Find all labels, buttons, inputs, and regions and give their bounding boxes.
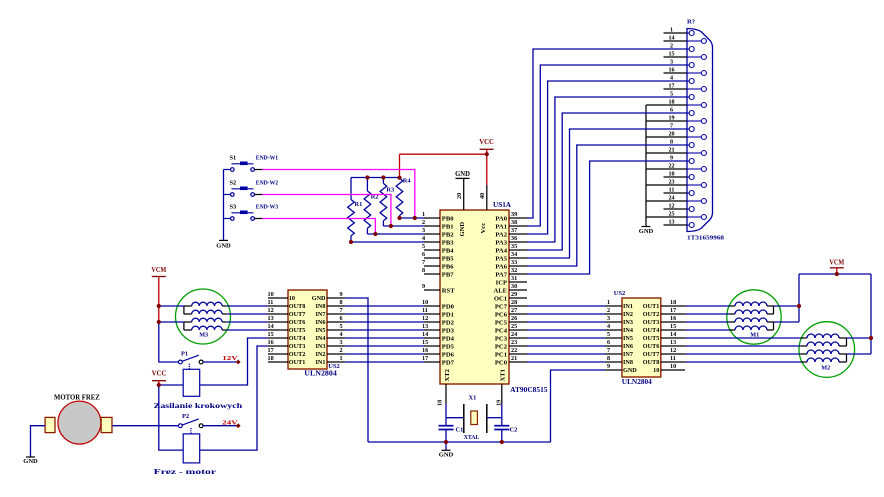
wire PA6 (pin 33) to connector pin 8 [527, 145, 687, 266]
svg-text:GND: GND [216, 243, 231, 250]
US2 left pins IN [605, 299, 637, 374]
wire resistor top rail [351, 177, 400, 179]
crystal X1 XTAL [464, 395, 487, 442]
svg-text:4: 4 [422, 235, 425, 242]
svg-text:US2: US2 [614, 290, 626, 297]
svg-text:PB3: PB3 [442, 239, 454, 246]
svg-text:23: 23 [511, 339, 517, 346]
svg-text:14: 14 [268, 323, 274, 330]
svg-text:30: 30 [511, 283, 517, 290]
junction VCC stub [485, 152, 489, 156]
svg-text:25: 25 [511, 323, 517, 330]
switch S3 (END-W3) [224, 203, 279, 220]
svg-text:28: 28 [511, 299, 517, 306]
wire M1 taps to VCM [774, 274, 800, 322]
svg-text:M2: M2 [821, 364, 830, 371]
svg-text:34: 34 [511, 251, 517, 258]
switch S1 (END-W1) [224, 154, 279, 171]
wire motor to P2 contact [112, 425, 179, 427]
junction S3/PB2 [373, 232, 377, 236]
svg-text:6: 6 [340, 315, 343, 322]
svg-text:24V: 24V [222, 419, 238, 426]
ground symbol (connector bus) [639, 227, 654, 236]
svg-text:PA4: PA4 [495, 247, 507, 254]
svg-text:11: 11 [422, 307, 428, 314]
wire PA7 (pin 32) to connector pin 9 [527, 161, 687, 274]
wire R2 to PB2 [367, 233, 424, 235]
wire PA1 (pin 38) to connector pin 3 [527, 65, 687, 226]
power symbol VCC (top) [479, 138, 494, 154]
svg-text:9: 9 [607, 363, 610, 370]
svg-text:2: 2 [607, 307, 610, 314]
junction R4 bottom PB0 [397, 216, 401, 220]
wire R3 to PB1 [383, 225, 424, 227]
svg-text:OUT7: OUT7 [289, 311, 306, 318]
svg-text:ULN2804: ULN2804 [304, 371, 337, 378]
junction R1/PB3 [349, 240, 353, 244]
svg-text:PC7: PC7 [495, 303, 508, 310]
svg-text:US2: US2 [328, 363, 340, 370]
wire XT2 to crystal/C1 [446, 404, 464, 425]
svg-text:OUT1: OUT1 [643, 303, 660, 310]
power symbol GND (pin 20) [455, 170, 470, 178]
svg-text:IN4: IN4 [316, 335, 326, 342]
svg-text:12: 12 [422, 315, 428, 322]
svg-text:PC2: PC2 [495, 343, 508, 350]
svg-text:21: 21 [511, 355, 517, 362]
svg-text:PD2: PD2 [442, 319, 455, 326]
svg-text:31: 31 [511, 275, 517, 282]
svg-text:18: 18 [268, 355, 274, 362]
svg-text:END-W1: END-W1 [256, 155, 278, 162]
svg-text:C2: C2 [510, 427, 518, 434]
svg-text:GND: GND [623, 367, 637, 374]
svg-text:GND: GND [459, 222, 466, 237]
wire US3 GND pin9 to ground bus [345, 298, 368, 442]
junction R2 top [365, 175, 369, 179]
svg-text:9: 9 [422, 283, 425, 290]
svg-text:3: 3 [340, 339, 343, 346]
US3 left pins OUT [268, 291, 306, 366]
svg-text:PD0: PD0 [442, 303, 455, 310]
svg-text:3: 3 [422, 227, 425, 234]
svg-text:US1A: US1A [493, 201, 511, 209]
svg-text:32: 32 [511, 267, 517, 274]
wire relay coil P2 to US3 OUT3 [200, 346, 268, 450]
svg-text:IN8: IN8 [316, 303, 326, 310]
svg-text:S1: S1 [230, 154, 237, 161]
svg-text:GND: GND [455, 170, 470, 178]
relay contact P1 [179, 351, 204, 370]
switch S2 (END-W2) [224, 179, 279, 196]
svg-text:IN2: IN2 [316, 351, 326, 358]
svg-text:GND: GND [312, 295, 326, 302]
wire switch common to ground [223, 170, 225, 241]
wires US2 OUT5-OUT8 to M2 coils [685, 338, 800, 362]
svg-text:OUT8: OUT8 [643, 359, 660, 366]
svg-text:PC4: PC4 [495, 327, 508, 334]
wire R4 to PB0 [400, 217, 425, 219]
svg-text:PC5: PC5 [495, 319, 508, 326]
driver IC US3 ULN2804 (left) [288, 290, 340, 378]
svg-text:OC1: OC1 [494, 295, 507, 302]
svg-text:8: 8 [607, 355, 610, 362]
svg-text:PD3: PD3 [442, 327, 455, 334]
wire: connector ground bus pins 18-25 [646, 105, 687, 226]
capacitor C2 [494, 426, 517, 442]
svg-text:ICP: ICP [496, 279, 507, 286]
junction M3 tap upper [157, 304, 161, 308]
svg-text:1: 1 [422, 211, 425, 218]
junction R3 top [381, 175, 385, 179]
svg-text:PD4: PD4 [442, 335, 455, 342]
US3 right pins IN [312, 291, 345, 366]
svg-text:11: 11 [670, 355, 676, 362]
svg-text:ULN2804: ULN2804 [622, 379, 653, 386]
junction VCM right rail [835, 272, 839, 276]
svg-text:36: 36 [511, 235, 517, 242]
wire PA0 (pin 39) to connector pin 2 [527, 49, 687, 218]
svg-text:17: 17 [268, 347, 274, 354]
svg-text:IN4: IN4 [623, 327, 633, 334]
svg-text:10: 10 [268, 291, 274, 298]
U1 right pin stubs and numbers [493, 211, 527, 366]
svg-text:4: 4 [607, 323, 610, 330]
svg-text:XTAL: XTAL [464, 434, 480, 441]
svg-text:IN5: IN5 [316, 327, 326, 334]
svg-text:IN2: IN2 [623, 311, 633, 318]
svg-text:S3: S3 [230, 203, 237, 210]
svg-text:M3: M3 [199, 332, 208, 339]
ground symbol (crystal) [439, 442, 454, 459]
svg-text:15: 15 [670, 323, 676, 330]
wire ground bus (bottom) [368, 441, 551, 443]
svg-text:VCM: VCM [829, 258, 844, 266]
svg-text:P1: P1 [181, 351, 188, 358]
svg-text:PB5: PB5 [442, 255, 454, 262]
svg-text:PB6: PB6 [442, 263, 454, 270]
svg-text:Vcc: Vcc [480, 223, 487, 234]
svg-text:5: 5 [340, 323, 343, 330]
wire VCC down to R4 [399, 154, 401, 178]
wires M3 coils to US3 OUT8-OUT5 [227, 306, 268, 330]
motor MOTOR FREZ [45, 394, 112, 445]
svg-text:IN3: IN3 [316, 343, 326, 350]
svg-text:3: 3 [607, 315, 610, 322]
svg-text:PB0: PB0 [442, 215, 454, 222]
svg-text:Zasilanie krokowych: Zasilanie krokowych [154, 403, 243, 410]
svg-text:15: 15 [268, 331, 274, 338]
svg-text:8: 8 [422, 267, 425, 274]
svg-text:2: 2 [422, 219, 425, 226]
svg-text:VCM: VCM [151, 266, 166, 274]
svg-text:IN3: IN3 [623, 319, 633, 326]
svg-text:OUT1: OUT1 [289, 359, 306, 366]
svg-text:IN1: IN1 [316, 359, 326, 366]
svg-text:6: 6 [607, 339, 610, 346]
wire motor to ground [31, 426, 46, 457]
svg-text:PA2: PA2 [495, 231, 507, 238]
svg-text:GND: GND [439, 452, 454, 459]
wire PA2 (pin 37) to connector pin 4 [527, 81, 687, 234]
svg-text:S2: S2 [230, 179, 237, 186]
ground symbol (switches) [216, 240, 231, 249]
wire P1 to 12V [203, 361, 237, 363]
svg-text:PD5: PD5 [442, 343, 455, 350]
wire PA3 (pin 36) to connector pin 5 [527, 97, 687, 242]
svg-text:IN7: IN7 [316, 311, 326, 318]
svg-text:PC1: PC1 [495, 351, 507, 358]
wire: unconnected connector stubs [664, 33, 688, 225]
svg-text:R3: R3 [386, 186, 394, 193]
svg-text:IN6: IN6 [316, 319, 326, 326]
svg-text:26: 26 [511, 315, 517, 322]
driver IC US2 ULN2804 (right) [614, 290, 661, 386]
svg-text:1T31659968: 1T31659968 [687, 235, 725, 242]
junction S2/PB1 [389, 224, 393, 228]
svg-text:2: 2 [340, 347, 343, 354]
svg-text:IN1: IN1 [623, 303, 633, 310]
svg-text:18: 18 [437, 400, 444, 406]
svg-text:17: 17 [422, 355, 428, 362]
svg-text:29: 29 [511, 291, 517, 298]
svg-text:MOTOR FREZ: MOTOR FREZ [54, 394, 100, 402]
svg-text:5: 5 [607, 331, 610, 338]
svg-text:Frez - motor: Frez - motor [154, 469, 216, 476]
relay coil P1 (Zasilanie krokowych) [154, 369, 243, 410]
svg-text:24: 24 [511, 331, 517, 338]
svg-text:1: 1 [340, 355, 343, 362]
svg-text:PC6: PC6 [495, 311, 508, 318]
resistor R4 [396, 178, 411, 218]
svg-text:12: 12 [268, 307, 274, 314]
svg-text:PB4: PB4 [442, 247, 454, 254]
wire VCC to relay coil P1 [159, 384, 183, 386]
svg-text:OUT6: OUT6 [643, 343, 660, 350]
wire US2 GND pin9 to ground bus [551, 370, 606, 442]
wire VCM vertical to P1 [159, 322, 179, 362]
svg-text:38: 38 [511, 219, 517, 226]
svg-text:IN6: IN6 [623, 343, 633, 350]
svg-text:PA1: PA1 [495, 223, 507, 230]
wire XT1 to crystal/C2 [487, 404, 502, 425]
wire VCM top rail (right) [799, 273, 871, 275]
svg-text:13: 13 [268, 315, 274, 322]
svg-text:R?: R? [687, 19, 695, 26]
svg-text:16: 16 [422, 347, 428, 354]
stepper motor M2 [799, 322, 855, 378]
svg-text:22: 22 [511, 347, 517, 354]
svg-text:18: 18 [670, 299, 676, 306]
svg-text:12: 12 [670, 347, 676, 354]
svg-text:C1: C1 [456, 427, 464, 434]
svg-text:15: 15 [422, 339, 428, 346]
svg-text:27: 27 [511, 307, 517, 314]
svg-text:PC3: PC3 [495, 335, 508, 342]
US2 right pins OUT [643, 299, 685, 374]
svg-text:12V: 12V [222, 355, 238, 362]
svg-text:END-W2: END-W2 [256, 180, 278, 187]
microcontroller U1 US1A AT90C8515 [440, 201, 548, 394]
svg-text:IN5: IN5 [623, 335, 633, 342]
junction S1/PB0 [413, 216, 417, 220]
power symbol VCM (right) [829, 258, 844, 274]
svg-text:OUT3: OUT3 [643, 319, 660, 326]
svg-text:5: 5 [422, 243, 425, 250]
svg-text:1: 1 [607, 299, 610, 306]
svg-text:OUT7: OUT7 [643, 351, 660, 358]
wire VCC vertical to relay coil P2 [159, 385, 183, 450]
svg-text:PA0: PA0 [495, 215, 507, 222]
wire M3 center taps to VCM [159, 306, 184, 322]
svg-text:XT1: XT1 [500, 369, 507, 381]
junction R4 top / VCC [397, 176, 401, 180]
svg-text:OUT6: OUT6 [289, 319, 306, 326]
junction M3 tap lower [157, 320, 161, 324]
svg-text:9: 9 [340, 291, 343, 298]
wire S1 to PB0 (magenta) [262, 170, 415, 219]
svg-text:39: 39 [511, 211, 517, 218]
resistor R3 [380, 178, 394, 227]
svg-text:AT90C8515: AT90C8515 [510, 386, 548, 394]
connector R? (DB25) [668, 19, 724, 242]
svg-text:33: 33 [511, 259, 517, 266]
resistor R1 [348, 178, 363, 243]
svg-text:10: 10 [289, 295, 295, 302]
U1 bottom pins XT2(18) XT1(19) [437, 368, 507, 406]
capacitor C1 [439, 426, 464, 442]
svg-text:OUT4: OUT4 [643, 327, 660, 334]
svg-text:OUT5: OUT5 [643, 335, 660, 342]
svg-text:16: 16 [268, 339, 274, 346]
wire VCC to pin 40 [486, 154, 488, 185]
svg-text:R1: R1 [355, 201, 363, 208]
wire P2 to 24V [203, 425, 237, 427]
svg-text:GND: GND [639, 228, 654, 235]
power symbol VCM (left) [151, 266, 166, 322]
svg-text:6: 6 [422, 251, 425, 258]
svg-text:OUT5: OUT5 [289, 327, 306, 334]
wire relay coil P1 to US3 OUT4 [200, 338, 268, 385]
junction M1 tap [797, 304, 801, 308]
wire VCC red rail [400, 153, 487, 155]
wires US3 inputs to U1 PD0-PD7 [345, 306, 424, 362]
svg-text:13: 13 [422, 323, 428, 330]
junction C1 ground bus [444, 440, 448, 444]
svg-text:PA3: PA3 [495, 239, 507, 246]
svg-text:PB2: PB2 [442, 231, 454, 238]
svg-text:8: 8 [340, 299, 343, 306]
svg-text:7: 7 [422, 259, 425, 266]
svg-text:PB7: PB7 [442, 271, 454, 278]
svg-text:11: 11 [268, 299, 274, 306]
wire PA5 (pin 34) to connector pin 7 [527, 129, 687, 258]
wires US2 OUT1-OUT4 to M1 coils [685, 306, 730, 330]
svg-text:GND: GND [23, 458, 38, 465]
wire R1 to PB3 [351, 241, 424, 243]
svg-text:17: 17 [670, 307, 676, 314]
svg-text:IN8: IN8 [623, 359, 633, 366]
svg-text:20: 20 [456, 193, 463, 199]
svg-text:OUT3: OUT3 [289, 343, 306, 350]
svg-text:RST: RST [442, 287, 455, 294]
wire PA4 (pin 35) to connector pin 6 [527, 113, 687, 250]
supply arrow 12V [222, 355, 240, 365]
svg-text:PD6: PD6 [442, 351, 455, 358]
svg-text:X1: X1 [469, 395, 477, 402]
U1 left pin stubs and numbers [422, 211, 455, 366]
svg-text:PA7: PA7 [495, 271, 507, 278]
ground symbol (motor) [23, 457, 38, 465]
svg-text:PA6: PA6 [495, 263, 507, 270]
svg-text:XT2: XT2 [444, 368, 451, 381]
junction C2 ground bus [500, 440, 504, 444]
svg-text:PD7: PD7 [442, 359, 455, 366]
power symbol VCC (relays) [152, 370, 167, 385]
svg-text:PC0: PC0 [495, 359, 508, 366]
svg-text:VCC: VCC [152, 370, 167, 378]
wire S3 to PB2 (magenta) [262, 219, 375, 235]
svg-text:40: 40 [479, 193, 486, 199]
svg-text:10: 10 [422, 299, 428, 306]
wire S2 to PB1 (magenta) [262, 195, 391, 227]
svg-text:35: 35 [511, 243, 517, 250]
junction M2 tap [869, 336, 873, 340]
svg-text:PA5: PA5 [495, 255, 507, 262]
wires U1 PC7-PC0 to US2 IN1-IN8 [527, 306, 605, 362]
U1 top pins GND(20) Vcc(40) [456, 178, 487, 236]
svg-text:10: 10 [653, 367, 659, 374]
svg-text:R4: R4 [403, 178, 412, 185]
svg-text:OUT2: OUT2 [643, 311, 660, 318]
svg-text:4: 4 [340, 331, 343, 338]
stepper motor M3 [176, 289, 231, 344]
svg-text:END-W3: END-W3 [256, 204, 278, 211]
svg-text:37: 37 [511, 227, 517, 234]
svg-text:13: 13 [670, 339, 676, 346]
svg-text:7: 7 [607, 347, 610, 354]
svg-text:PB1: PB1 [442, 223, 454, 230]
svg-text:ALE: ALE [493, 287, 507, 294]
svg-text:16: 16 [670, 315, 676, 322]
svg-text:OUT8: OUT8 [289, 303, 306, 310]
svg-text:OUT2: OUT2 [289, 351, 306, 358]
svg-text:VCC: VCC [479, 138, 494, 146]
relay contact P2 [179, 413, 204, 433]
svg-text:OUT4: OUT4 [289, 335, 306, 342]
svg-text:10: 10 [670, 363, 676, 370]
relay coil P2 (Frez - motor) [154, 434, 216, 476]
svg-text:7: 7 [340, 307, 343, 314]
svg-text:14: 14 [422, 331, 428, 338]
svg-text:P2: P2 [182, 413, 189, 420]
stepper motor M1 [727, 290, 781, 344]
supply arrow 24V [222, 419, 241, 428]
svg-text:14: 14 [670, 331, 676, 338]
junction VCC relay [157, 383, 161, 387]
svg-text:IN7: IN7 [623, 351, 633, 358]
svg-text:PD1: PD1 [442, 311, 454, 318]
wire M2 taps to VCM [847, 274, 872, 354]
resistor R2 [364, 178, 379, 235]
